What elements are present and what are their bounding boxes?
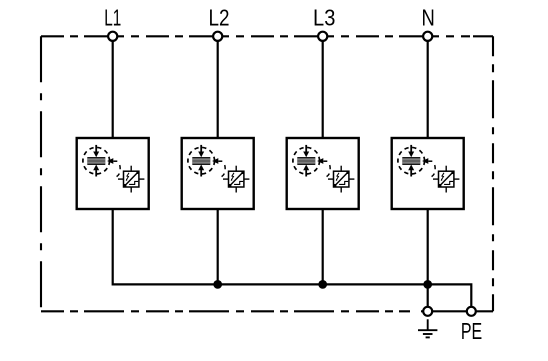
wire: module 3 to bus — [322, 209, 324, 284]
svg-text:L3: L3 — [313, 5, 335, 31]
terminal L1 — [108, 32, 117, 41]
equipment boundary: top dash-dot line — [41, 35, 470, 37]
terminal PE — [467, 307, 476, 316]
wire: N terminal to module 4 — [427, 36, 429, 138]
wire: L1 terminal to module 1 — [112, 36, 114, 138]
svg-text:L2: L2 — [209, 5, 230, 31]
SPD module 1 (L1) — [77, 138, 149, 209]
terminal: earth connection on boundary — [423, 307, 432, 316]
equipment boundary: bottom dash-dot line — [41, 310, 410, 312]
wire: L3 terminal to module 3 — [322, 36, 324, 138]
terminal L2 — [213, 32, 222, 41]
ground symbol — [418, 319, 437, 337]
equipment boundary: left dash-dot line — [40, 36, 42, 311]
SPD module 2 (L2) — [182, 138, 254, 209]
equipment boundary: top-right solid run into corner — [473, 35, 493, 37]
SPD module 4 (N) — [392, 138, 464, 209]
terminal N — [423, 32, 432, 41]
equipment boundary: right dash-dot line — [492, 36, 494, 311]
svg-text:PE: PE — [461, 318, 482, 344]
terminal L3 — [318, 32, 327, 41]
svg-text:N: N — [421, 5, 434, 31]
SPD module 3 (L3) — [287, 138, 359, 209]
wire: module 1 down and common bus to PE drop — [113, 209, 472, 311]
junction: bus / N column — [423, 280, 432, 289]
wire: module 4 to bus and down to earth terminal — [427, 209, 429, 311]
wire: module 2 to bus — [217, 209, 219, 284]
wire: L2 terminal to module 2 — [217, 36, 219, 138]
junction: bus / L2 column — [213, 280, 222, 289]
junction: bus / L3 column — [318, 280, 327, 289]
svg-text:L1: L1 — [104, 5, 121, 31]
equipment boundary: bottom solid segment through earth and PE terminals — [421, 310, 493, 312]
